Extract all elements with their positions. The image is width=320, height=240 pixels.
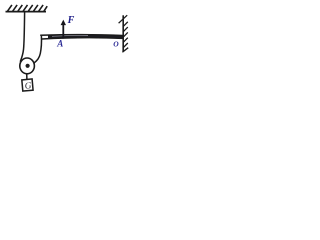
svg-text:F: F (67, 15, 75, 26)
svg-text:G: G (24, 80, 32, 91)
svg-text:A: A (56, 39, 63, 49)
svg-text:O: O (113, 39, 119, 48)
